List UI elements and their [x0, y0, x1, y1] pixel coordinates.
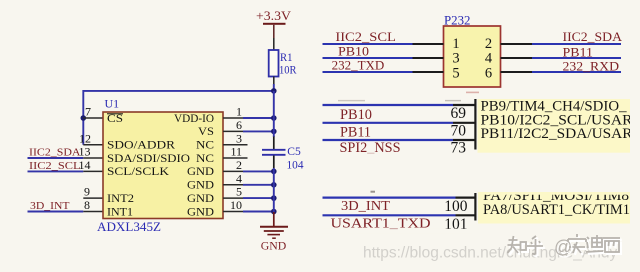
svg-text:PA8/USART1_CK/TIM1: PA8/USART1_CK/TIM1 — [483, 202, 630, 218]
pin 5 GND wire — [223, 185, 274, 199]
svg-text:GND: GND — [261, 239, 287, 253]
svg-text:3D_INT: 3D_INT — [30, 201, 70, 212]
svg-text:70: 70 — [451, 122, 467, 139]
net IIC2_SDA wire right (P232 pin2) — [501, 30, 623, 44]
wire R1 to rail — [273, 77, 275, 93]
pin 9 INT2 stub — [83, 185, 103, 199]
pin 7 CS stub — [83, 105, 103, 119]
svg-text:13: 13 — [79, 145, 91, 159]
svg-text:8: 8 — [84, 198, 90, 212]
svg-text:SDA/SDI/SDIO: SDA/SDI/SDIO — [107, 153, 190, 165]
net IIC2_SCL wire left (P232 pin1) — [323, 30, 444, 44]
svg-text:10R: 10R — [279, 64, 297, 76]
svg-text:NC: NC — [196, 140, 214, 152]
svg-text:ADXL345Z: ADXL345Z — [97, 219, 161, 234]
svg-text:11: 11 — [230, 145, 242, 159]
wire top rail — [83, 91, 273, 145]
svg-text:+3.3V: +3.3V — [256, 8, 292, 23]
svg-text:@: @ — [554, 237, 572, 257]
svg-text:100: 100 — [444, 198, 468, 215]
svg-text:GND: GND — [187, 180, 214, 192]
svg-text:104: 104 — [287, 159, 304, 171]
junction pin5 — [271, 195, 277, 201]
svg-text:R1: R1 — [280, 52, 293, 64]
svg-text:CS: CS — [107, 113, 123, 125]
junction pin2 — [271, 169, 277, 175]
net 232_TXD wire left (P232 pin5) — [323, 59, 444, 73]
svg-text:232_RXD: 232_RXD — [563, 60, 620, 74]
pin 3 NC stub — [223, 131, 248, 145]
svg-text:U1: U1 — [105, 97, 120, 111]
svg-text:PB11/I2C2_SDA/USAR: PB11/I2C2_SDA/USAR — [481, 126, 633, 142]
net PB11 wire right (P232 pin4) — [501, 45, 622, 59]
svg-text:7: 7 — [85, 105, 91, 119]
ghost wire row 68 — [323, 104, 476, 106]
svg-text:NC: NC — [196, 153, 214, 165]
net IIC2_SDA wire (pin 13) — [28, 145, 104, 159]
svg-text:IIC2_SDA: IIC2_SDA — [563, 30, 623, 44]
svg-text:10: 10 — [230, 198, 242, 212]
svg-text:232_TXD: 232_TXD — [332, 59, 385, 73]
connector P232 body — [444, 26, 501, 87]
junction pin4 — [271, 182, 277, 188]
svg-text:6: 6 — [485, 65, 492, 81]
net PB11 wire (pin 70) — [323, 122, 476, 140]
pin 12 SDO stub — [79, 131, 103, 145]
svg-text:VS: VS — [198, 126, 214, 138]
svg-text:3D_INT: 3D_INT — [341, 199, 390, 214]
svg-text:PB10: PB10 — [340, 107, 372, 123]
svg-text:C5: C5 — [287, 146, 301, 158]
svg-text:5: 5 — [452, 65, 459, 81]
svg-text:SCL/SCLK: SCL/SCLK — [107, 166, 170, 178]
MCU fragment B pin texts — [483, 188, 630, 218]
svg-text:12: 12 — [79, 131, 91, 145]
svg-text:2: 2 — [236, 158, 242, 172]
svg-text:6: 6 — [236, 118, 242, 132]
svg-text:3: 3 — [452, 51, 459, 67]
net PB10 wire left (P232 pin3) — [323, 44, 444, 58]
svg-text:1: 1 — [236, 105, 242, 119]
svg-text:3: 3 — [236, 131, 242, 145]
svg-text:SDO/ADDR: SDO/ADDR — [107, 140, 175, 152]
junction rail/R1 — [271, 88, 277, 94]
svg-text:GND: GND — [187, 193, 214, 205]
ghost wire row (PA7) — [323, 197, 476, 199]
svg-text:PB11: PB11 — [340, 125, 371, 141]
pin 2 GND wire — [223, 158, 274, 172]
resistor R1 — [269, 50, 297, 77]
ground — [260, 212, 288, 253]
op IC U1 body — [103, 112, 223, 219]
junction pin10 — [271, 209, 277, 215]
net USART1_TXD label (pin 101) — [331, 216, 468, 233]
svg-text:IIC2_SDA: IIC2_SDA — [29, 148, 81, 159]
net 232_RXD wire right (P232 pin6) — [501, 60, 622, 74]
ghost tick above 3D_INT — [371, 191, 376, 193]
ghost erased red label remnant — [466, 92, 479, 94]
power +3.3V symbol — [256, 8, 292, 25]
wire bus upper (rail to C5) — [273, 91, 275, 137]
svg-text:INT1: INT1 — [107, 206, 133, 218]
svg-text:PB11: PB11 — [563, 45, 594, 59]
wire bus lower (C5 to ground) — [273, 168, 275, 213]
pin 1 VDD-IO wire — [223, 105, 274, 119]
pin 10 GND wire — [223, 198, 274, 212]
svg-text:69: 69 — [451, 105, 467, 122]
svg-text:9: 9 — [84, 185, 90, 199]
net 3D_INT wire (pin 8) — [28, 198, 104, 212]
pin 11 NC stub — [223, 145, 248, 159]
ghost erased label remnants — [338, 100, 461, 101]
junction pin1 — [271, 115, 277, 121]
crop fade below fragment B row — [322, 229, 472, 234]
watermark @ sign — [554, 237, 574, 259]
svg-text:5: 5 — [236, 185, 242, 199]
junction CS — [81, 115, 87, 121]
MCU fragment B body — [478, 192, 630, 224]
svg-text:14: 14 — [79, 158, 91, 172]
pin 6 VS wire — [223, 118, 274, 132]
MCU fragment A left border — [474, 99, 476, 150]
MCU fragment B left border — [474, 193, 476, 221]
net PB10 wire (pin 69) — [323, 105, 476, 123]
wire power to R1 — [273, 25, 275, 51]
svg-text:4: 4 — [485, 51, 493, 67]
svg-text:PB10: PB10 — [338, 44, 369, 58]
net 3D_INT wire (pin 100) — [323, 198, 476, 215]
net SPI2_NSS label (pin 73) — [340, 139, 467, 156]
svg-text:INT2: INT2 — [107, 193, 134, 205]
pin 4 GND wire — [223, 171, 274, 185]
svg-text:GND: GND — [187, 166, 214, 178]
capacitor C5 — [262, 137, 304, 172]
svg-text:GND: GND — [187, 206, 214, 218]
junction pin6 — [271, 129, 277, 135]
MCU fragment A body — [478, 99, 631, 153]
svg-text:VDD-IO: VDD-IO — [174, 113, 214, 125]
svg-text:IIC2_SCL: IIC2_SCL — [335, 30, 396, 44]
svg-text:4: 4 — [236, 171, 242, 185]
svg-text:IIC2_SCL: IIC2_SCL — [29, 161, 81, 172]
U1 pin name CS with overline — [107, 113, 123, 125]
crop band below fragment A — [322, 153, 475, 161]
MCU fragment A pin texts — [481, 99, 634, 142]
net IIC2_SCL wire (pin 14) — [28, 158, 104, 172]
